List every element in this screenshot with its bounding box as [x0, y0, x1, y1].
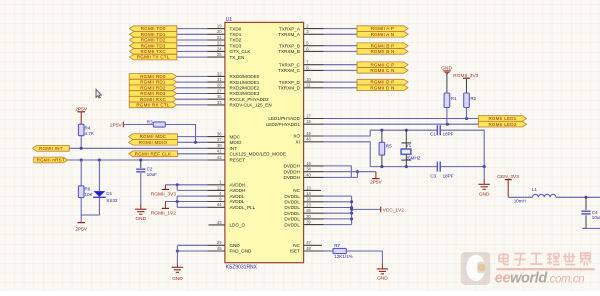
pin 41 CLK125_MDO/LED_MODE	[208, 149, 286, 157]
pin 7 TXRXP_C	[279, 60, 324, 68]
junction DVDDL bus join 207.5	[350, 206, 353, 209]
wire RGMII REF CLK to U1	[177, 153, 207, 155]
svg-text:35: 35	[217, 94, 222, 99]
resistor R3	[147, 119, 166, 127]
junction C3-gnd riser	[483, 165, 486, 168]
svg-text:13: 13	[306, 185, 311, 190]
svg-text:TXRXM_A: TXRXM_A	[278, 32, 301, 37]
wire U1 to RGMII A P	[324, 28, 358, 30]
power RGMII_3V3 right	[453, 73, 478, 79]
svg-text:C4: C4	[592, 210, 598, 215]
svg-text:R3: R3	[147, 119, 153, 124]
wire DVDDL row 201.8	[324, 201, 352, 203]
pin 43 LDO_O	[209, 220, 246, 228]
pin 20 TXD1	[208, 29, 242, 37]
wire U1 pin15 to RGMII LED2	[324, 123, 479, 125]
wire AVDDL pin44	[177, 206, 207, 208]
wire 3V3 to R2	[466, 78, 468, 93]
capacitor C3	[430, 162, 453, 179]
svg-text:DVDDH: DVDDH	[284, 169, 300, 174]
junction nRST-D1	[98, 158, 101, 161]
svg-text:RGMII LED1: RGMII LED1	[488, 116, 516, 121]
pin 49 PAD_GND	[208, 246, 253, 254]
svg-text:TXRXM_B: TXRXM_B	[278, 49, 300, 54]
svg-text:C1: C1	[430, 132, 436, 137]
svg-text:40: 40	[306, 172, 311, 177]
svg-text:14: 14	[306, 191, 311, 196]
eeworld watermark logo	[461, 252, 491, 285]
port RGMII RX CTL	[129, 102, 177, 108]
port RGMII nRST	[34, 157, 68, 163]
svg-text:29: 29	[217, 240, 222, 245]
wire GND to R1	[446, 74, 448, 93]
svg-text:16: 16	[306, 161, 311, 166]
port RGMII TXC	[130, 49, 177, 55]
svg-text:2P5V: 2P5V	[75, 107, 88, 113]
pin 45 XO	[293, 131, 323, 139]
pin 2 TXRXP_A	[279, 24, 324, 32]
wire nRST to D1	[98, 160, 100, 191]
wire RGMII nRST to U1 RESET	[68, 159, 208, 161]
svg-text:TX_EN: TX_EN	[230, 55, 245, 60]
pin 13 NC	[293, 185, 321, 193]
power 2P5V below R6/D1	[75, 223, 88, 233]
power 2P5V at R3	[110, 122, 123, 129]
port RGMII LED1	[479, 116, 527, 122]
svg-text:DVDDH: DVDDH	[284, 164, 300, 169]
port RGMII MDC	[129, 134, 178, 140]
svg-text:42: 42	[217, 155, 222, 160]
port RGMII C N	[357, 68, 408, 74]
IC U1 KSZ9031RNX body	[225, 17, 304, 271]
wire U1 to RGMII B P	[324, 45, 358, 47]
wire RGMII RD0 to U1	[177, 75, 208, 77]
port RGMII A N	[357, 32, 408, 38]
pin 10 TXRXP_D	[279, 77, 324, 85]
wire XO pin45	[324, 130, 371, 136]
port RGMII D P	[357, 79, 408, 85]
wire R6 to 2P5V rail	[80, 198, 82, 223]
port RGMII RD2	[129, 85, 177, 91]
pin 46 XI	[296, 137, 324, 145]
svg-text:TXRXM_D: TXRXM_D	[278, 85, 301, 90]
wire AVDDL vertical	[176, 196, 178, 207]
svg-text:RGMII TD2: RGMII TD2	[141, 38, 166, 43]
wire RGMII RXC to U1	[177, 98, 208, 100]
svg-text:RGMII MDIO: RGMII MDIO	[139, 140, 168, 145]
wire RGMII TD1 to U1	[177, 33, 208, 35]
svg-text:NC: NC	[293, 243, 300, 248]
port RGMII RXC	[129, 96, 177, 102]
wire RGMII TD2 to U1	[177, 39, 208, 41]
wire AVDDH pin12	[177, 189, 207, 191]
wire nRST to C2	[140, 160, 142, 168]
resistor R7	[333, 243, 353, 259]
svg-text:DVDDL: DVDDL	[284, 194, 300, 199]
svg-text:R7: R7	[334, 243, 340, 248]
port RGMII LED2	[479, 121, 527, 127]
port RGMII TD1	[130, 32, 177, 38]
svg-text:RGMII B P: RGMII B P	[371, 43, 395, 48]
svg-text:AVDDL_PLL: AVDDL_PLL	[230, 205, 256, 210]
wire D1 to bottom rail	[81, 197, 99, 215]
svg-text:36: 36	[217, 132, 222, 137]
pin 4 AVDDL	[208, 191, 245, 199]
svg-text:2P5V: 2P5V	[370, 180, 383, 186]
junction bus VCC tap	[350, 208, 353, 211]
svg-text:10uF: 10uF	[147, 172, 158, 177]
svg-text:DVDDL: DVDDL	[284, 222, 300, 227]
wire R5 bottom stub	[381, 155, 383, 167]
svg-text:RGMII TXC: RGMII TXC	[140, 49, 166, 54]
svg-text:24: 24	[217, 46, 222, 51]
pin 29 GND	[208, 240, 241, 248]
svg-text:RXD1/MODE1: RXD1/MODE1	[230, 80, 260, 85]
wire AVDDL pin4	[177, 195, 207, 197]
junction nRST-C2	[139, 158, 142, 161]
pin 33 RXDV-CLK_125_EN	[208, 100, 272, 108]
power RGMII_3V3 left	[162, 185, 169, 190]
pin 40 DVDDH	[284, 172, 324, 180]
power 2P5V at R4 (bar above)	[77, 112, 85, 124]
wire U1 to RGMII D N	[324, 87, 358, 89]
ground crystal gnd	[479, 184, 491, 197]
port RGMII B P	[357, 43, 408, 49]
wire U1 pin17 to RGMII LED1	[324, 118, 479, 120]
svg-text:25: 25	[217, 52, 222, 57]
svg-text:RGMII TD0: RGMII TD0	[141, 26, 166, 31]
pin 3 TXRXM_A	[278, 29, 323, 37]
resistor R2	[464, 93, 477, 108]
svg-text:DVDDH: DVDDH	[284, 175, 300, 180]
svg-text:44: 44	[217, 202, 222, 207]
svg-text:INT: INT	[230, 146, 238, 151]
svg-text:11: 11	[306, 83, 311, 88]
junction XI-R5	[380, 165, 383, 168]
svg-text:U1: U1	[226, 17, 233, 23]
pin 37 MDIO	[208, 137, 242, 145]
watermark chinese title	[499, 253, 591, 266]
pin 22 TXD3	[208, 41, 242, 49]
wire C4 out wire	[582, 227, 600, 229]
pin 14 DVDDL	[284, 191, 323, 199]
svg-text:RGMII RD0: RGMII RD0	[140, 74, 166, 79]
svg-text:DVDDL: DVDDL	[284, 205, 300, 210]
wire RGMII RD2 to U1	[177, 87, 208, 89]
port RGMII INT	[33, 145, 70, 151]
diode D1 SS32	[93, 191, 118, 203]
pin 16 DVDDH	[284, 161, 324, 169]
svg-text:2P5V: 2P5V	[110, 122, 123, 128]
svg-text:25MHZ: 25MHZ	[406, 156, 421, 161]
svg-text:RGMII RD3: RGMII RD3	[140, 91, 166, 96]
wire RGMII TX CTL to U1	[177, 56, 208, 58]
svg-text:AVDDH: AVDDH	[230, 182, 246, 187]
svg-text:eeworld.com.cn: eeworld.com.cn	[495, 270, 584, 286]
svg-text:RGMII D P: RGMII D P	[370, 80, 394, 85]
pin 35 RXCLK_PHYADD2	[208, 94, 270, 102]
junction DVDDH join	[356, 170, 359, 173]
power RGMII_1V2 left	[162, 202, 169, 209]
wire GND pin29	[177, 244, 207, 246]
svg-text:RGMII_3V3: RGMII_3V3	[151, 191, 176, 197]
power GEN_3V3	[497, 174, 519, 180]
svg-text:VCC_1V2: VCC_1V2	[383, 207, 405, 213]
wire RGMII TD3 to U1	[177, 45, 208, 47]
svg-text:RGMII LED2: RGMII LED2	[488, 122, 516, 127]
svg-text:4.7K: 4.7K	[85, 131, 94, 136]
svg-text:10: 10	[306, 77, 311, 82]
svg-text:DVDDL: DVDDL	[284, 211, 300, 216]
svg-text:RGMII INT: RGMII INT	[39, 146, 63, 151]
svg-text:TXRXM_C: TXRXM_C	[278, 68, 301, 73]
svg-text:23: 23	[306, 202, 311, 207]
wire RGMII MDC to U1	[177, 136, 207, 138]
wire R1 to LED2 net	[446, 108, 448, 125]
svg-text:R2: R2	[470, 96, 476, 101]
junction XO-Y1	[405, 129, 408, 132]
port RGMII TD2	[130, 37, 177, 43]
junction R3-MDIO	[194, 141, 197, 144]
wire R2 to LED1 net	[466, 108, 468, 119]
svg-text:49: 49	[217, 246, 222, 251]
svg-text:PAD_GND: PAD_GND	[230, 249, 253, 254]
pin 21 TXD2	[208, 35, 242, 43]
pin 48 ISET	[290, 246, 324, 254]
svg-text:48: 48	[306, 246, 311, 251]
svg-text:DVDDL: DVDDL	[284, 199, 300, 204]
svg-text:L1: L1	[532, 187, 538, 192]
mouse cursor	[96, 89, 101, 98]
wire C1 to gnd riser	[440, 130, 484, 166]
power 2P5V right	[370, 172, 383, 186]
svg-text:47: 47	[306, 240, 311, 245]
svg-text:38: 38	[217, 143, 222, 148]
pin 18 DVDDL	[284, 197, 323, 205]
pin 36 MDC	[208, 132, 241, 140]
svg-text:TXD2: TXD2	[230, 38, 242, 43]
pin 17 LED1/PHYADD	[268, 113, 323, 121]
svg-text:12K1/1%: 12K1/1%	[334, 254, 352, 259]
wire DVDDH pin34	[324, 171, 376, 173]
wire GEN_3V3 stem	[507, 180, 509, 198]
watermark red underline	[497, 268, 595, 270]
svg-text:RXD2/MODE2: RXD2/MODE2	[230, 85, 260, 90]
pin 38 INT	[208, 143, 238, 151]
svg-text:RGMII_1V2: RGMII_1V2	[151, 210, 176, 216]
svg-text:RGMII nRST: RGMII nRST	[37, 158, 65, 163]
wire DVDDL row 218.9	[324, 218, 352, 220]
pin 42 RESET	[208, 155, 246, 163]
svg-text:37: 37	[217, 137, 222, 142]
wire C2 GND stem	[140, 204, 142, 209]
capacitor C4	[581, 210, 600, 220]
svg-text:Y1: Y1	[406, 143, 412, 148]
svg-text:RGMII RX CTL: RGMII RX CTL	[136, 103, 169, 108]
svg-text:DVDDL: DVDDL	[284, 217, 300, 222]
pin 28 RXD2/MODE2	[208, 83, 260, 91]
svg-text:AVDDL: AVDDL	[230, 194, 245, 199]
pin 9 AVDDL	[208, 196, 245, 204]
svg-text:17: 17	[306, 113, 311, 118]
svg-text:RXCLK_PHYADD2: RXCLK_PHYADD2	[230, 97, 270, 102]
junction AVDDH join	[176, 183, 179, 186]
junction R4-INT	[80, 147, 83, 150]
pin 15 LED2/PHYADD1	[266, 119, 324, 127]
svg-text:RGMII RD2: RGMII RD2	[140, 85, 166, 90]
junction R1-LED2	[446, 123, 449, 126]
resistor R6	[78, 186, 92, 198]
pin 24 GTX_CLK	[208, 46, 252, 54]
pin 12 AVDDH	[208, 185, 246, 193]
svg-text:GND: GND	[135, 216, 146, 222]
wire XI pin46	[324, 142, 371, 167]
svg-text:34: 34	[306, 167, 311, 172]
capacitor C2	[136, 166, 157, 177]
svg-text:TXRXP_D: TXRXP_D	[279, 80, 301, 85]
junction R2-LED1	[465, 117, 468, 120]
svg-text:46: 46	[306, 137, 311, 142]
svg-text:GND: GND	[172, 276, 183, 282]
svg-text:22: 22	[217, 41, 222, 46]
pin 25 TX_EN	[208, 52, 245, 60]
svg-text:RGMII C N: RGMII C N	[370, 68, 394, 73]
junction AVDDL join	[176, 200, 179, 203]
wire RGMII MDIO to U1	[177, 141, 207, 143]
wire XI rail	[370, 166, 437, 168]
wire DVDDL row 207.5	[324, 207, 352, 209]
wire U1 to RGMII C N	[324, 69, 358, 71]
wire R4 to INT net	[80, 136, 82, 149]
wire xtal gnd stem2	[483, 179, 485, 184]
wire C2 to GND	[140, 173, 142, 204]
wire RGMII TD0 to U1	[177, 28, 208, 30]
wire PAD_GND pin49	[177, 250, 207, 252]
pin 26 DVDDL	[284, 208, 323, 216]
wire DVDDL row 224.6	[324, 224, 352, 226]
port RGMII TD0	[130, 26, 177, 32]
wire C4 bottom	[582, 215, 586, 228]
wire 2P5V to R3	[123, 124, 153, 126]
ground below U1	[172, 267, 184, 282]
wire RGMII INT to U1	[69, 147, 207, 149]
svg-text:RGMII REF CLK: RGMII REF CLK	[135, 151, 172, 156]
resistor R1	[444, 93, 457, 108]
wire R7 to GND	[346, 251, 382, 264]
pin 8 TXRXM_C	[278, 65, 324, 73]
svg-text:RESET: RESET	[230, 158, 246, 163]
resistor R4	[78, 124, 93, 136]
ground above R1 (inverted)	[441, 66, 452, 74]
svg-text:ISET: ISET	[290, 249, 300, 254]
svg-text:KSZ9031RNX: KSZ9031RNX	[226, 265, 258, 271]
svg-text:RGMII TD1: RGMII TD1	[141, 32, 166, 37]
junction XO-R5	[380, 129, 383, 132]
svg-text:31: 31	[217, 77, 222, 82]
wire L1 to C4 node	[556, 196, 600, 198]
svg-text:R1: R1	[451, 96, 457, 101]
wire ISET to R7	[324, 250, 334, 252]
pin 47 NC	[293, 240, 322, 248]
svg-text:26: 26	[306, 208, 311, 213]
ground R7 gnd	[377, 269, 389, 281]
wire C4 top stub	[585, 197, 587, 210]
svg-text:RGMII A N: RGMII A N	[371, 32, 395, 37]
svg-text:AVDDL: AVDDL	[230, 199, 245, 204]
svg-text:RGMII TD3: RGMII TD3	[141, 43, 166, 48]
svg-text:C2: C2	[147, 166, 153, 171]
pin 30 DVDDL	[284, 214, 323, 222]
svg-text:39: 39	[306, 220, 311, 225]
svg-text:GTX_CLK: GTX_CLK	[230, 49, 252, 54]
svg-text:RGMII RD1: RGMII RD1	[140, 80, 166, 85]
svg-text:RXDV-CLK_125_EN: RXDV-CLK_125_EN	[230, 103, 272, 108]
wire R7 gnd stem	[381, 264, 383, 269]
svg-text:18: 18	[306, 197, 311, 202]
junction L1-C4	[584, 196, 587, 199]
resistor R5	[379, 142, 392, 155]
pin 39 DVDDL	[284, 220, 323, 228]
port RGMII MDIO	[129, 140, 178, 146]
wire R3 to MDIO net	[165, 125, 195, 143]
power VCC_1V2 label	[381, 207, 405, 214]
svg-text:10uF: 10uF	[592, 215, 600, 220]
svg-text:RGMII D N: RGMII D N	[370, 85, 394, 90]
svg-text:RXD0/MODE0: RXD0/MODE0	[230, 74, 260, 79]
svg-text:10mH: 10mH	[514, 198, 526, 203]
svg-text:RXD3/MODE3: RXD3/MODE3	[230, 91, 260, 96]
junction DVDDL bus join 218.9	[350, 217, 353, 220]
svg-text:RGMII TX CTL: RGMII TX CTL	[137, 55, 170, 60]
svg-text:10K: 10K	[85, 192, 93, 197]
wire C3 to gnd riser	[440, 166, 484, 168]
svg-text:21: 21	[217, 35, 222, 40]
junction gnd join	[176, 249, 179, 252]
svg-text:CLK125_MDO/LED_MODE: CLK125_MDO/LED_MODE	[230, 151, 286, 156]
wire 3V3 to L1	[508, 196, 532, 198]
port RGMII TX CTL	[130, 54, 177, 60]
port RGMII RD3	[129, 91, 177, 97]
svg-text:LDO_O: LDO_O	[230, 223, 246, 228]
svg-text:GND: GND	[377, 275, 388, 281]
wire U1 to RGMII C P	[324, 64, 358, 66]
crystal Y1 25MHZ	[401, 130, 421, 166]
svg-text:18PF: 18PF	[443, 132, 454, 137]
svg-text:TXD1: TXD1	[230, 32, 242, 37]
pin 1 AVDDH	[208, 180, 246, 188]
svg-text:R4: R4	[85, 125, 91, 130]
svg-text:RGMII RXC: RGMII RXC	[140, 97, 167, 102]
wire gnd vertical	[176, 245, 178, 264]
svg-text:R6: R6	[85, 186, 91, 191]
port RGMII REF CLK	[129, 151, 178, 157]
svg-text:41: 41	[217, 149, 222, 154]
svg-text:MDIO: MDIO	[230, 140, 242, 145]
svg-text:XO: XO	[293, 134, 300, 139]
svg-text:TXRXP_C: TXRXP_C	[279, 62, 301, 67]
wire DVDDH pin16	[324, 166, 352, 178]
inductor L1 10mH	[514, 187, 556, 204]
svg-text:43: 43	[217, 220, 222, 225]
svg-text:LED1/PHYADD: LED1/PHYADD	[268, 116, 300, 121]
wire DVDDL row 213.2	[324, 212, 352, 214]
svg-text:XI: XI	[296, 139, 300, 144]
svg-text:NC: NC	[293, 188, 300, 193]
capacitor C1	[430, 125, 453, 136]
pin 6 TXRXM_B	[278, 46, 323, 54]
svg-text:18PF: 18PF	[443, 174, 454, 179]
svg-text:2P5V: 2P5V	[75, 226, 88, 232]
